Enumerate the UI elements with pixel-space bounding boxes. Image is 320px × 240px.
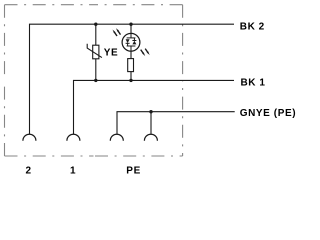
svg-text:BK 1: BK 1	[241, 78, 266, 89]
svg-text:GNYE (PE): GNYE (PE)	[240, 108, 297, 119]
svg-text:PE: PE	[126, 165, 141, 176]
svg-text:2: 2	[26, 166, 32, 177]
svg-text:YE: YE	[104, 48, 118, 59]
svg-text:1: 1	[70, 166, 76, 177]
svg-text:BK 2: BK 2	[240, 21, 265, 32]
